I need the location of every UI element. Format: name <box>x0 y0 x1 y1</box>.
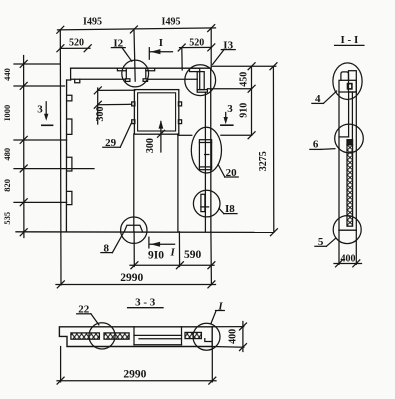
detail circle 4 <box>333 63 362 100</box>
detail 8 trapezoid <box>124 225 142 231</box>
top cap box <box>339 80 356 92</box>
svg-text:3: 3 <box>37 104 43 116</box>
dim line 3275 <box>272 66 274 232</box>
svg-text:I3: I3 <box>223 40 233 52</box>
dim 300 left of square <box>97 88 99 124</box>
svg-text:20: 20 <box>226 167 238 179</box>
panel bottom edge <box>16 231 274 234</box>
svg-text:3 - 3: 3 - 3 <box>135 297 156 309</box>
3-3 bar outline <box>59 327 212 347</box>
column outer left <box>338 92 340 230</box>
middle recess <box>133 327 135 345</box>
dim line 2990 plan <box>56 284 216 286</box>
extension line left outer <box>59 30 62 285</box>
svg-text:2990: 2990 <box>120 272 143 284</box>
detail oval 20 <box>191 127 221 173</box>
svg-text:I: I <box>217 301 223 313</box>
svg-text:29: 29 <box>105 137 117 149</box>
section marker 3 left <box>45 102 47 115</box>
extension at x=181.8 <box>181 48 183 71</box>
dim line 450/910 <box>251 66 253 135</box>
extension top edge right <box>212 65 276 67</box>
svg-text:I2: I2 <box>113 38 123 50</box>
svg-text:5: 5 <box>318 236 324 248</box>
panel top edge outer <box>71 67 211 69</box>
svg-text:480: 480 <box>2 148 12 161</box>
svg-text:440: 440 <box>2 68 12 81</box>
panel right edge outer <box>210 68 212 232</box>
top dimension line 1495+1495 <box>58 28 216 30</box>
cap small square <box>348 84 352 89</box>
label 13 leader <box>221 49 235 51</box>
square lugs <box>132 102 135 106</box>
panel left edge <box>65 80 67 232</box>
label 8 leader <box>101 252 113 254</box>
left edge lug 1 <box>67 95 72 101</box>
svg-text:8: 8 <box>103 243 109 255</box>
dimension line 520 right <box>180 46 212 48</box>
label 20 leader <box>225 176 238 178</box>
label I leader (3-3) <box>216 310 225 312</box>
core hatch band <box>347 145 353 227</box>
svg-text:3275: 3275 <box>258 151 269 171</box>
detail circle 13 <box>185 65 216 96</box>
svg-text:I495: I495 <box>162 17 181 28</box>
svg-text:I - I: I - I <box>341 34 359 46</box>
detail circle 18 <box>193 190 220 217</box>
extension stud I2 centre <box>134 30 135 81</box>
svg-text:I: I <box>170 247 176 259</box>
column inner lines <box>348 92 350 137</box>
svg-text:9I0: 9I0 <box>148 250 164 262</box>
svg-text:820: 820 <box>2 179 12 192</box>
right step <box>205 339 212 342</box>
ledge line right <box>178 134 192 136</box>
section marker 3 right <box>225 113 227 119</box>
label 5 leader <box>315 245 327 247</box>
top-left corner <box>70 68 72 80</box>
svg-text:520: 520 <box>69 37 84 48</box>
window opening square <box>134 90 178 135</box>
svg-text:300: 300 <box>95 107 106 122</box>
section marker I bottom <box>148 237 150 248</box>
svg-text:3: 3 <box>227 103 233 115</box>
svg-text:6: 6 <box>313 139 319 151</box>
panel top edge inner <box>71 78 126 80</box>
svg-text:590: 590 <box>184 249 202 261</box>
svg-text:I: I <box>159 37 163 49</box>
dim line 910/590 <box>130 264 214 266</box>
detail circle 12 <box>122 60 149 87</box>
column outer right <box>355 92 357 230</box>
step at detail 6 <box>339 136 349 138</box>
label 22 leader <box>77 313 91 315</box>
dim 400 (3-3) <box>212 326 244 328</box>
hatch strip 1 <box>71 333 100 339</box>
left dimension chain <box>23 56 25 238</box>
interior channel verticals <box>133 134 135 232</box>
dim 400 (I-I) <box>338 230 340 264</box>
top cap hook <box>341 72 349 80</box>
detail circle 5 <box>333 216 361 244</box>
label 18 leader <box>224 213 237 215</box>
title underline <box>335 44 364 46</box>
detail circle 6 <box>335 124 364 153</box>
title underline <box>128 307 163 309</box>
label 6 leader <box>310 148 321 150</box>
core top square <box>347 140 353 145</box>
stud detail I3 <box>190 68 200 71</box>
svg-text:22: 22 <box>78 304 90 316</box>
circle 22 left <box>89 323 115 349</box>
column bottom edge <box>339 229 356 231</box>
svg-text:I495: I495 <box>83 17 102 28</box>
label 12 leader <box>111 47 125 49</box>
svg-text:300: 300 <box>145 138 156 153</box>
extension line right outer top <box>210 28 212 68</box>
extension from stud foot <box>207 88 251 90</box>
left edge lug 2 <box>67 119 72 134</box>
svg-text:910: 910 <box>238 103 249 118</box>
top cap block <box>349 71 357 92</box>
left edge lug 4 <box>67 191 72 204</box>
svg-text:450: 450 <box>238 72 249 87</box>
svg-text:535: 535 <box>2 212 12 225</box>
svg-text:I000: I000 <box>2 105 12 121</box>
stud detail I2 <box>117 68 126 71</box>
section marker I top <box>148 48 150 60</box>
label 4 leader <box>312 102 324 104</box>
left edge lug 3 <box>67 157 72 171</box>
dim 300 inside square <box>160 122 162 153</box>
detail 18 bracket <box>201 194 205 211</box>
hatch strip 3 <box>185 332 201 338</box>
svg-text:400: 400 <box>227 329 238 344</box>
svg-text:2990: 2990 <box>123 368 146 380</box>
label 29 leader <box>103 146 120 148</box>
svg-text:4: 4 <box>315 93 321 105</box>
dimension line 520 left <box>60 47 90 49</box>
hatch strip 2 <box>104 333 129 339</box>
svg-text:400: 400 <box>341 253 356 264</box>
panel right edge inner <box>204 92 206 232</box>
detail circle 8 <box>121 217 147 243</box>
dim 2990 (3-3) <box>60 347 62 382</box>
chain extension lines <box>14 63 60 65</box>
detail 20 ladder <box>199 140 211 170</box>
svg-text:520: 520 <box>189 38 204 49</box>
svg-text:I8: I8 <box>225 203 235 215</box>
circle right (3-3) <box>193 323 220 350</box>
